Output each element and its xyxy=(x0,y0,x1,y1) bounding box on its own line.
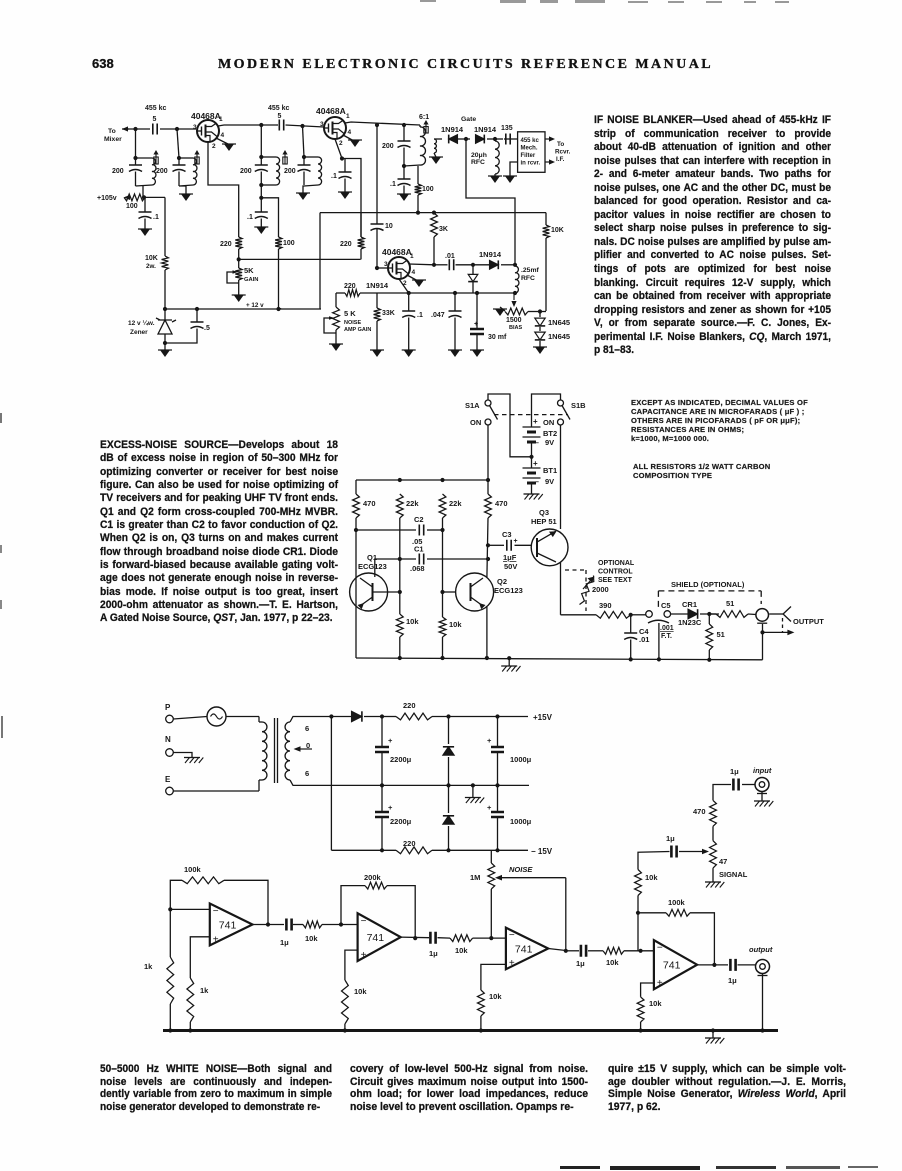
arrow out bottom xyxy=(545,161,551,163)
wire tank3 top xyxy=(261,156,276,158)
transistor 40468A third xyxy=(388,257,410,279)
wire tank1 top xyxy=(136,157,153,159)
ground 33K xyxy=(372,350,382,357)
op-amp U2 741 xyxy=(358,913,401,961)
wire Q1 collector line xyxy=(355,518,357,658)
wire pin4 T2 xyxy=(343,135,354,141)
ground pin4 T3 xyxy=(414,280,424,287)
svg-text:455 kc: 455 kc xyxy=(145,105,167,112)
svg-text:ON: ON xyxy=(543,418,554,427)
wire xyxy=(260,198,262,212)
wire minus rail left xyxy=(331,849,396,851)
svg-text:.1: .1 xyxy=(153,214,159,221)
wire xyxy=(490,850,492,863)
svg-text:455 kc: 455 kc xyxy=(521,138,540,144)
junction xyxy=(446,848,450,852)
svg-text:Filter: Filter xyxy=(521,153,536,159)
svg-text:.001: .001 xyxy=(660,625,674,632)
slug 6:1 xyxy=(425,124,427,133)
svg-text:AMP GAIN: AMP GAIN xyxy=(344,327,371,333)
wire gate T3 xyxy=(377,267,388,269)
wire xyxy=(403,186,405,195)
wire xyxy=(303,172,305,186)
svg-text:CONTROL: CONTROL xyxy=(598,569,633,576)
dashed switch link xyxy=(494,414,568,416)
resistor 100k first xyxy=(182,877,224,884)
junction xyxy=(188,1028,192,1032)
resistor 100 dropping xyxy=(124,194,145,201)
wire left drop xyxy=(319,213,321,309)
wire xyxy=(260,157,262,165)
pot wiper arrow 2 xyxy=(329,316,335,320)
wire fb2 right xyxy=(387,886,415,939)
svg-text:220: 220 xyxy=(340,241,352,248)
svg-text:.047: .047 xyxy=(431,312,445,319)
junction xyxy=(711,1028,715,1032)
wire output xyxy=(769,613,783,615)
wire xyxy=(169,909,171,957)
wire C2 left xyxy=(356,529,416,531)
junction xyxy=(402,123,406,127)
coil tank3 xyxy=(276,157,280,185)
svg-text:input: input xyxy=(753,766,772,775)
wire secondary bottom xyxy=(290,780,381,785)
svg-text:1μF: 1μF xyxy=(503,553,517,562)
coil 6:1 primary xyxy=(420,127,425,165)
wire xyxy=(487,480,489,494)
svg-text:10: 10 xyxy=(385,223,393,230)
schematic notes xyxy=(631,398,808,443)
wire C5 ground xyxy=(658,623,660,659)
svg-text:10k: 10k xyxy=(649,999,662,1008)
ground RFC xyxy=(490,176,500,183)
svg-text:ECG123: ECG123 xyxy=(494,586,523,595)
junction xyxy=(479,1028,483,1032)
junction xyxy=(486,478,490,482)
junction xyxy=(413,936,417,940)
ground zener xyxy=(160,350,170,357)
wire S1A to battery midpoint xyxy=(488,394,532,457)
junction xyxy=(339,922,343,926)
wire xyxy=(434,264,448,266)
svg-text:1M: 1M xyxy=(470,873,480,882)
wire xyxy=(545,213,547,225)
wire return arrow xyxy=(763,631,789,633)
junction xyxy=(402,164,406,168)
wire xyxy=(381,817,383,850)
svg-text:22k: 22k xyxy=(406,499,419,508)
wire thick ground rail xyxy=(163,1029,778,1032)
svg-text:C1: C1 xyxy=(414,545,424,554)
svg-text:10k: 10k xyxy=(305,934,318,943)
transistor 40468A second xyxy=(324,117,346,139)
junction xyxy=(276,307,280,311)
wire xyxy=(497,817,499,850)
capacitor .047 xyxy=(449,311,462,318)
svg-text:–: – xyxy=(535,440,539,447)
wire xyxy=(260,185,262,198)
svg-text:1000μ: 1000μ xyxy=(510,817,532,826)
svg-text:4: 4 xyxy=(412,269,416,276)
wire xyxy=(293,924,303,926)
ground pin4 T2 xyxy=(350,140,360,147)
wire secondary top xyxy=(290,717,352,723)
junction xyxy=(489,936,493,940)
wire xyxy=(531,483,533,494)
svg-text:1N645: 1N645 xyxy=(548,332,570,341)
wire secondary to diode xyxy=(434,138,442,140)
capacitor 1u output xyxy=(730,959,735,971)
capacitor 200 xfmr xyxy=(398,141,411,148)
dashed shield top xyxy=(658,590,761,592)
svg-text:220: 220 xyxy=(344,283,356,290)
resistor 220 source T2 xyxy=(358,237,365,249)
dashed shield right xyxy=(760,591,762,604)
junction xyxy=(564,949,568,953)
svg-text:.1: .1 xyxy=(390,181,396,188)
junction xyxy=(300,124,304,128)
op-amp U3 741 xyxy=(506,928,548,970)
capacitor 5 pF interstage xyxy=(279,120,283,131)
wire xyxy=(381,785,383,812)
wire +12v rail xyxy=(165,308,321,310)
feedthrough terminal 2 xyxy=(664,611,671,618)
resistor 100k second xyxy=(666,909,690,916)
svg-text:−: − xyxy=(361,916,367,927)
svg-text:C5: C5 xyxy=(661,601,671,610)
wire C1 left xyxy=(375,559,416,577)
wire AC path xyxy=(466,139,515,265)
transistor 40468A first xyxy=(197,120,219,142)
resistor 10k second xyxy=(439,617,446,637)
text block: IF NOISE BLANKER xyxy=(594,114,831,358)
capacitor C4 .01 xyxy=(624,633,637,640)
svg-text:2000: 2000 xyxy=(592,585,609,594)
svg-text:+: + xyxy=(361,950,367,961)
wire xyxy=(630,615,632,633)
junction xyxy=(380,714,384,718)
wire xyxy=(624,950,654,952)
svg-text:1N23C: 1N23C xyxy=(678,618,702,627)
wire xyxy=(448,826,450,850)
wire xyxy=(545,238,547,311)
junction xyxy=(380,783,384,787)
ground signal pot xyxy=(705,881,721,883)
op-amp U1 741 xyxy=(210,904,253,946)
svg-text:Rcvr.: Rcvr. xyxy=(555,149,571,156)
ground cap .1 xyxy=(140,229,150,236)
svg-text:10k: 10k xyxy=(455,946,468,955)
ground tank4 xyxy=(298,193,308,200)
wire xyxy=(322,924,358,926)
svg-text:12 v ¼w.: 12 v ¼w. xyxy=(128,319,155,327)
wire out 4 xyxy=(697,964,728,966)
resistor 100 xfmr xyxy=(415,184,422,195)
wire xyxy=(135,129,137,158)
ground main rail xyxy=(705,1037,721,1039)
wire xyxy=(500,307,505,311)
wire xyxy=(712,826,714,840)
wire xyxy=(748,613,756,616)
svg-text:9V: 9V xyxy=(545,438,554,447)
wire plus rail xyxy=(432,716,528,718)
svg-text:1k: 1k xyxy=(200,986,209,995)
diode 1N914 third xyxy=(490,260,499,269)
svg-text:in rcvr.: in rcvr. xyxy=(521,161,541,167)
resistor 390 xyxy=(596,611,631,618)
wire xyxy=(448,717,450,745)
wire xyxy=(144,196,165,198)
svg-text:4: 4 xyxy=(221,132,225,139)
svg-text:9V: 9V xyxy=(545,477,554,486)
capacitor .1 bypass1 xyxy=(139,212,152,219)
svg-text:–: – xyxy=(535,479,539,486)
junction xyxy=(163,307,167,311)
wire xyxy=(476,293,478,329)
svg-text:+105v: +105v xyxy=(97,195,117,202)
wire xyxy=(144,197,146,212)
wire xyxy=(630,640,632,660)
wire xyxy=(164,343,166,350)
capacitor .5 xyxy=(191,322,204,329)
switch S1B bottom terminal xyxy=(558,419,564,425)
wire xyxy=(196,329,198,341)
ground 30mf xyxy=(472,350,482,357)
svg-text:200: 200 xyxy=(284,168,296,175)
junction xyxy=(237,257,241,261)
junction xyxy=(398,478,402,482)
wire tank4 top xyxy=(304,156,318,158)
svg-text:3K: 3K xyxy=(439,226,448,233)
wire filter ground xyxy=(510,162,518,176)
svg-text:135: 135 xyxy=(501,125,513,132)
wire tank1 bottom xyxy=(136,185,153,186)
edge marks bottom xyxy=(560,1166,600,1169)
junction xyxy=(629,613,633,617)
junction xyxy=(133,156,137,160)
svg-text:200: 200 xyxy=(382,143,394,150)
output chevron xyxy=(783,607,791,622)
battery BT2 xyxy=(523,427,541,437)
wire xyxy=(708,614,710,624)
terminal E xyxy=(166,787,174,795)
transformer core xyxy=(275,718,278,783)
wire xyxy=(487,138,503,140)
svg-text:.1: .1 xyxy=(331,173,337,180)
wire xyxy=(335,330,337,344)
wire xyxy=(169,1004,171,1031)
wire xyxy=(260,219,262,228)
capacitor 1u signal xyxy=(671,846,676,858)
wire xyxy=(539,312,541,318)
wire signal left xyxy=(638,852,670,870)
bottom text columns xyxy=(100,1063,332,1114)
wire xyxy=(458,138,470,140)
page number xyxy=(92,56,114,71)
junction xyxy=(495,714,499,718)
capacitor 135 xyxy=(506,134,510,145)
coil .25mf RFC xyxy=(515,266,519,293)
wire xyxy=(360,213,362,237)
svg-text:3: 3 xyxy=(193,124,197,131)
svg-text:1μ: 1μ xyxy=(728,976,737,985)
junction xyxy=(471,783,475,787)
svg-text:390: 390 xyxy=(599,601,612,610)
svg-text:5: 5 xyxy=(278,113,282,120)
wire to 390 xyxy=(561,614,597,616)
svg-text:22k: 22k xyxy=(449,499,462,508)
wire xyxy=(135,172,137,187)
resistor 200k xyxy=(365,882,387,889)
wire xyxy=(490,889,492,938)
junction xyxy=(486,557,490,561)
wire xyxy=(376,293,378,308)
ground input jack xyxy=(754,800,770,802)
svg-text:10k: 10k xyxy=(489,992,502,1001)
junction xyxy=(432,211,436,215)
wire xyxy=(260,172,262,186)
ground 5K noise pot xyxy=(331,344,341,351)
wire xyxy=(448,757,450,785)
potentiometer 2000 diagonal xyxy=(580,576,594,605)
svg-text:S1A: S1A xyxy=(465,401,480,410)
svg-text:+: + xyxy=(657,978,663,989)
junction xyxy=(177,156,181,160)
ground .1 xfmr xyxy=(399,194,409,201)
resistor 51 shunt xyxy=(706,624,713,650)
svg-text:200: 200 xyxy=(112,168,124,175)
wire pot wiper 2 xyxy=(324,318,336,333)
svg-text:+: + xyxy=(388,736,393,745)
switch S1A blade xyxy=(490,406,498,420)
wire xyxy=(540,311,546,313)
wire plus in 2 xyxy=(345,950,358,980)
svg-text:2200μ: 2200μ xyxy=(390,755,412,764)
slug tank3 xyxy=(284,154,286,164)
junction xyxy=(495,848,499,852)
svg-text:.1: .1 xyxy=(417,312,423,319)
wire xyxy=(259,779,262,781)
wire tank2 top xyxy=(179,157,193,159)
capacitor 200 tank2 xyxy=(173,165,186,172)
junction xyxy=(760,1028,764,1032)
wire minus rail right xyxy=(432,849,528,851)
resistor 10k gnd b xyxy=(478,990,485,1016)
resistor 10k signal xyxy=(635,870,642,896)
wire fb4 right xyxy=(690,913,714,965)
svg-text:51: 51 xyxy=(726,599,734,608)
svg-text:220: 220 xyxy=(403,701,416,710)
ground filter xyxy=(505,176,515,183)
svg-text:30 mf: 30 mf xyxy=(488,334,507,341)
wire N xyxy=(173,753,192,758)
svg-text:40468A: 40468A xyxy=(316,106,346,116)
junction xyxy=(475,291,479,295)
wire xyxy=(472,265,474,274)
svg-text:455 kc: 455 kc xyxy=(268,105,290,112)
wire xyxy=(504,138,518,140)
wire xyxy=(408,318,410,351)
wire wiper down xyxy=(565,878,567,951)
junction xyxy=(340,156,344,160)
ground cap .1 2 xyxy=(256,227,266,234)
wire out 2 xyxy=(401,936,429,939)
junction xyxy=(142,195,146,199)
feedthrough terminal 1 xyxy=(646,611,653,618)
junction xyxy=(440,590,444,594)
signal pot wiper arrow xyxy=(679,851,702,853)
wire to Q gate xyxy=(160,128,196,130)
wire xyxy=(539,341,541,347)
junction xyxy=(464,137,468,141)
svg-text:100: 100 xyxy=(283,240,295,247)
svg-text:1k: 1k xyxy=(144,962,153,971)
svg-text:1μ: 1μ xyxy=(666,834,675,843)
resistor 3K xyxy=(431,213,438,237)
svg-text:ON: ON xyxy=(470,418,481,427)
svg-text:+: + xyxy=(213,934,219,945)
svg-text:1500: 1500 xyxy=(506,317,522,324)
ground pin4 T1 xyxy=(224,144,234,151)
svg-text:10k: 10k xyxy=(645,873,658,882)
svg-text:GAIN: GAIN xyxy=(244,277,259,283)
wire xyxy=(381,717,383,748)
wire xyxy=(671,613,689,615)
wire top tap down xyxy=(330,717,332,851)
capacitor C5 feedthrough plate xyxy=(648,620,669,623)
junction xyxy=(760,630,764,634)
wire xyxy=(712,1031,714,1039)
svg-text:1N914: 1N914 xyxy=(366,281,389,290)
ground .1 T2 xyxy=(340,192,350,199)
ground tank2 xyxy=(181,194,191,201)
svg-text:3: 3 xyxy=(384,261,388,268)
noise pot wiper xyxy=(499,877,566,879)
wire plus in 3 xyxy=(481,964,506,990)
wire C3 right xyxy=(515,544,532,546)
wire 100 to +12v rail xyxy=(278,249,280,308)
connector input xyxy=(755,778,769,792)
resistor 220 minus xyxy=(396,847,432,854)
capacitor 200 tank4 xyxy=(298,165,311,172)
junction xyxy=(195,307,199,311)
junction xyxy=(707,612,711,616)
resistor 10k chain b xyxy=(450,935,473,942)
junction xyxy=(513,263,517,267)
wire source T1 to 220 xyxy=(208,142,239,237)
left edge marks xyxy=(0,413,2,423)
wire xyxy=(566,950,579,952)
junction xyxy=(629,657,633,661)
svg-text:100k: 100k xyxy=(668,898,686,907)
potentiometer 1M NOISE xyxy=(488,863,495,889)
wire plus in 1 xyxy=(190,937,210,978)
wire to 100 xyxy=(261,198,278,237)
wire xyxy=(178,158,180,165)
bias wiper arrow xyxy=(513,293,515,300)
junction xyxy=(175,127,179,131)
wire xyxy=(344,159,346,173)
svg-text:To: To xyxy=(557,141,564,148)
wire xyxy=(708,650,710,660)
wire xyxy=(588,950,603,952)
junction xyxy=(495,783,499,787)
wire xyxy=(164,197,166,256)
wire xyxy=(376,229,378,269)
junction xyxy=(398,590,402,594)
svg-text:100k: 100k xyxy=(184,865,202,874)
potentiometer 1500 BIAS xyxy=(505,308,528,315)
